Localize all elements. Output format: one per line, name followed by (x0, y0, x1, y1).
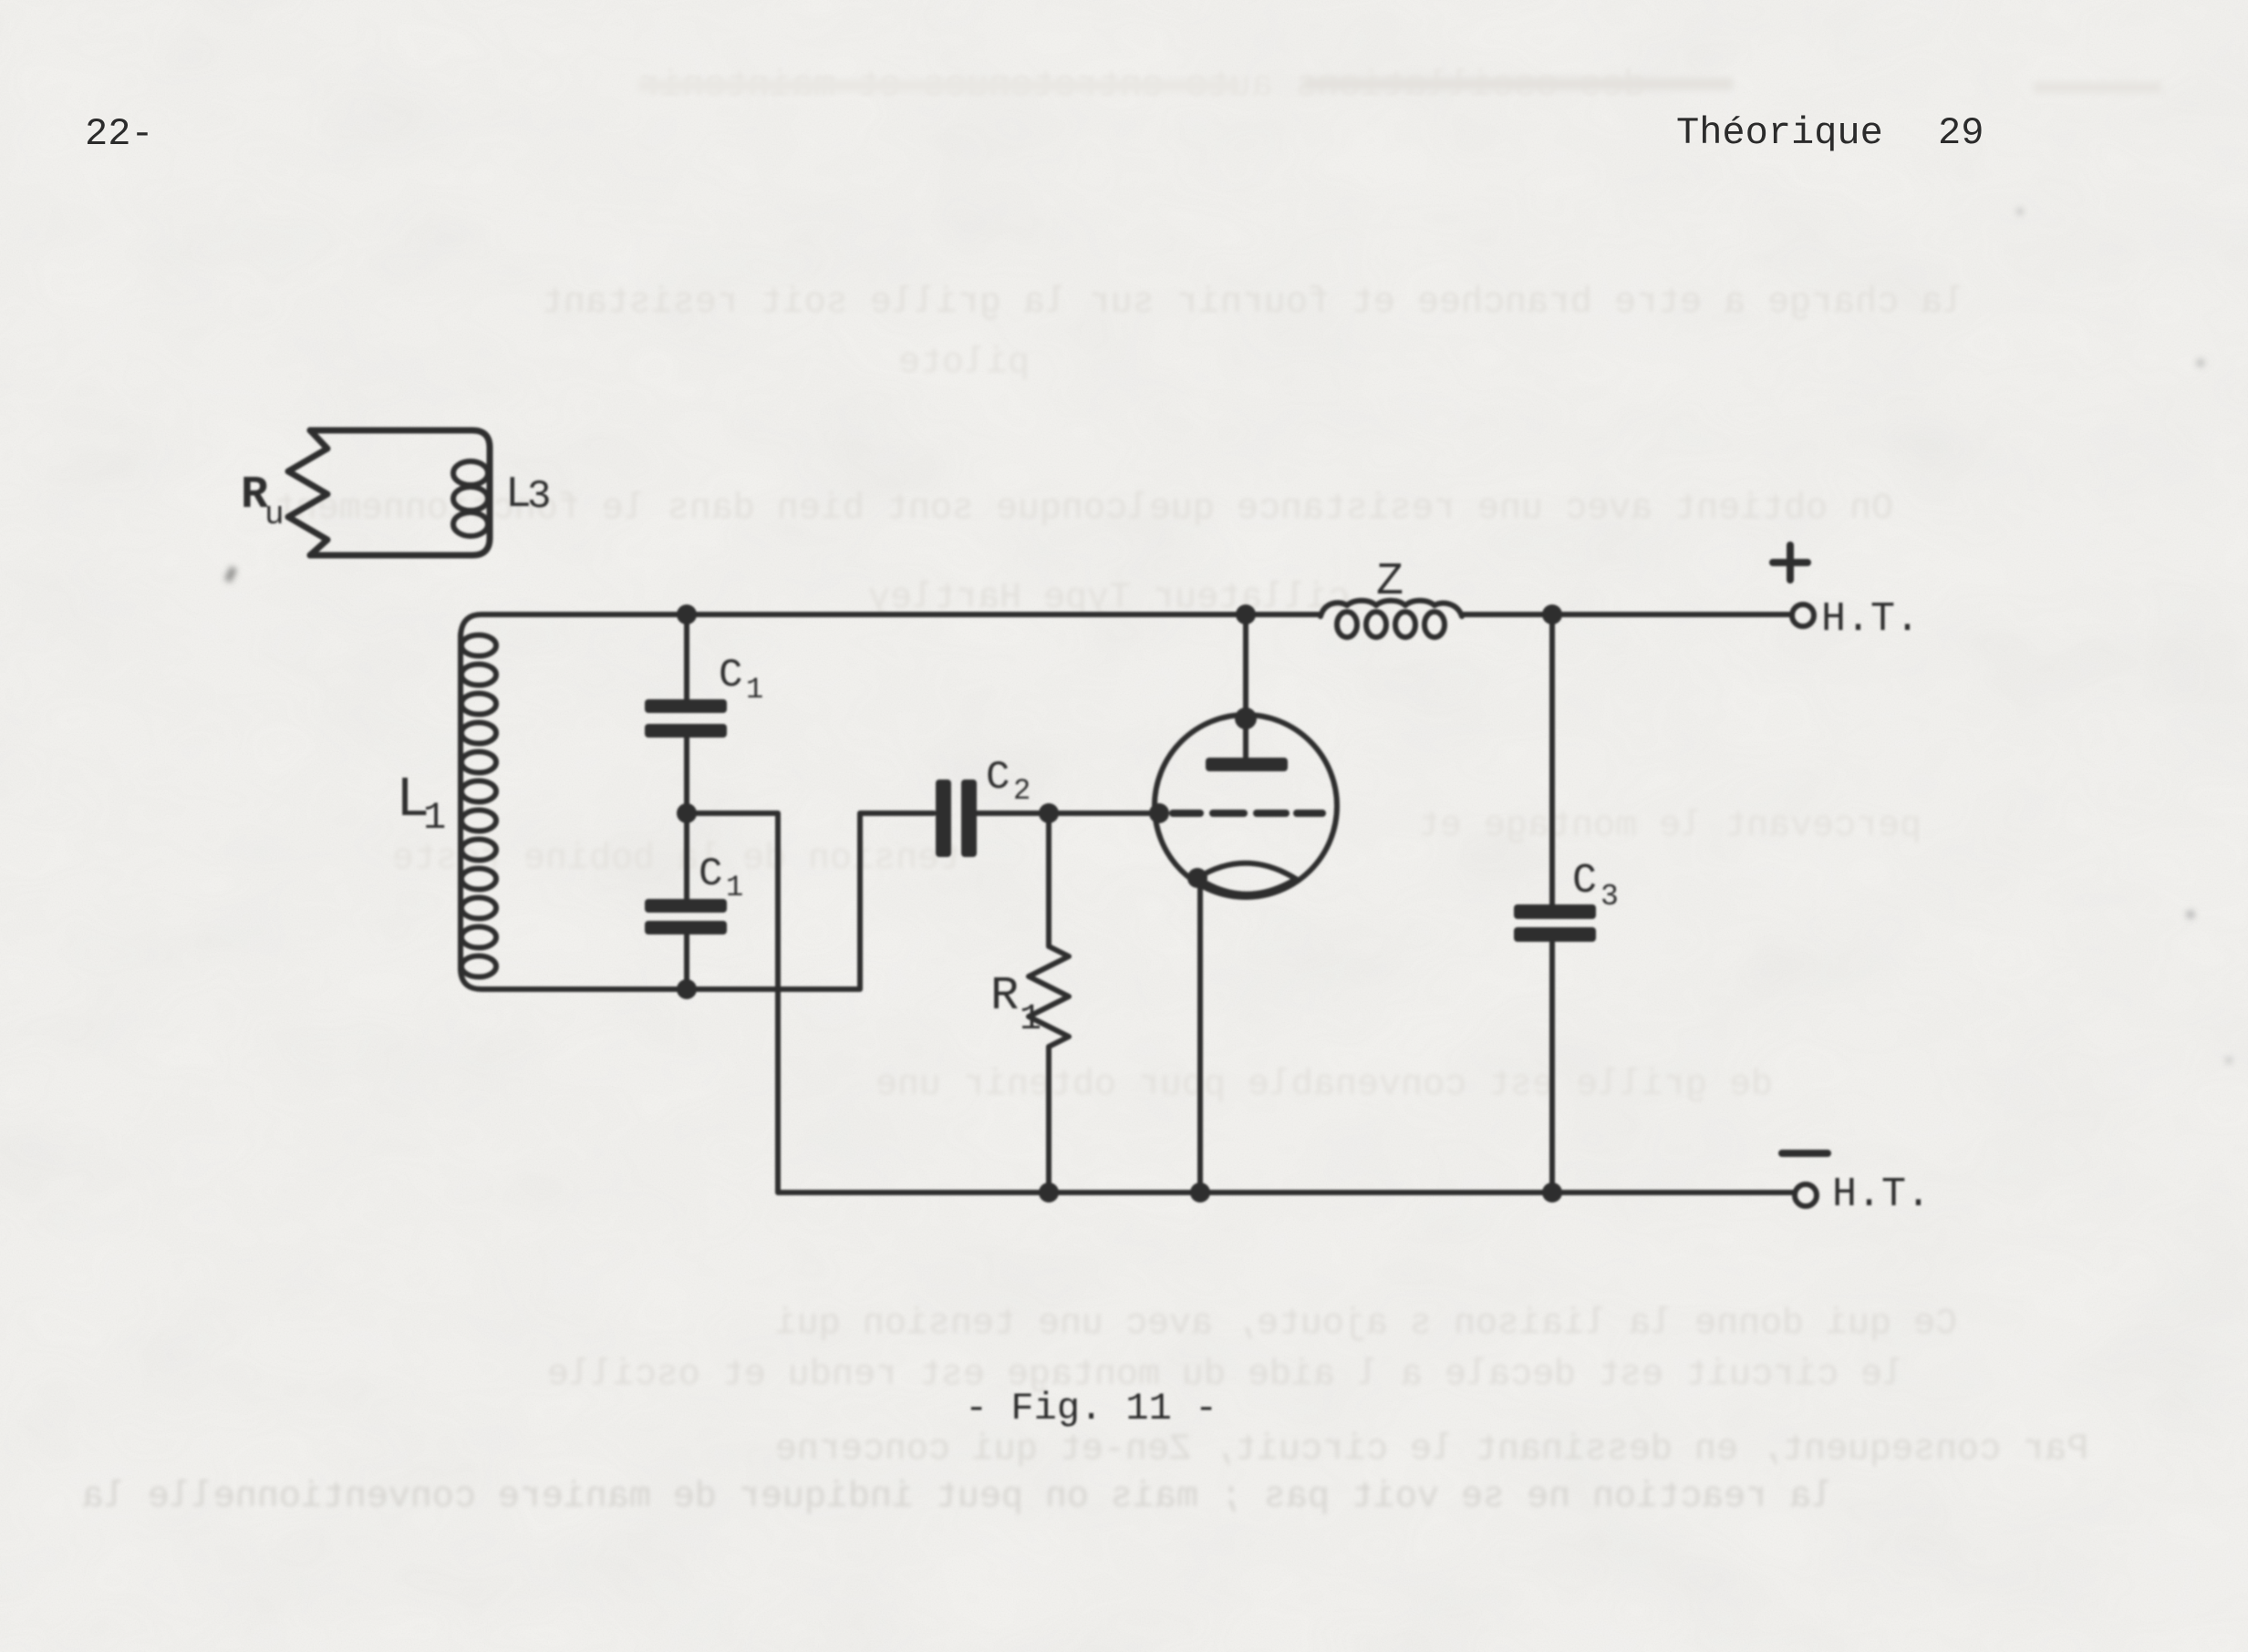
svg-text:1: 1 (423, 796, 446, 840)
svg-text:Z: Z (1376, 556, 1404, 608)
svg-text:R: R (990, 969, 1019, 1023)
svg-text:C: C (719, 653, 742, 698)
svg-text:1: 1 (1020, 999, 1041, 1040)
svg-text:la reaction ne se voit pas ; m: la reaction ne se voit pas ; mais on peu… (82, 1477, 1833, 1518)
svg-text:C: C (1572, 858, 1597, 904)
svg-text:C: C (699, 852, 722, 897)
svg-text:1: 1 (746, 673, 763, 707)
svg-text:de grille est convenable pour: de grille est convenable pour obtenir un… (875, 1065, 1773, 1106)
svg-text:29: 29 (1938, 111, 1984, 155)
svg-text:H.T.: H.T. (1821, 596, 1920, 643)
svg-text:3: 3 (527, 474, 551, 520)
svg-text:22-: 22- (85, 112, 154, 156)
svg-text:u: u (264, 496, 285, 533)
svg-text:H.T.: H.T. (1832, 1172, 1931, 1218)
svg-text:pilote: pilote (898, 343, 1030, 384)
svg-text:3: 3 (1601, 880, 1619, 914)
svg-text:le circuit est decale a l aide: le circuit est decale a l aide du montag… (547, 1355, 1904, 1396)
svg-text:la charge a etre branchee et f: la charge a etre branchee et fournir sur… (542, 283, 1964, 324)
svg-text:Par consequent, en dessinant l: Par consequent, en dessinant le circuit,… (775, 1430, 2088, 1471)
svg-text:2: 2 (1013, 774, 1031, 808)
svg-text:percevant le montage et: percevant le montage et (1418, 806, 1922, 847)
svg-text:1: 1 (726, 871, 743, 904)
svg-text:Ce qui donne la liaison s ajou: Ce qui donne la liaison s ajoute, avec u… (775, 1304, 1957, 1345)
svg-text:- Fig. 11 -: - Fig. 11 - (965, 1387, 1217, 1430)
svg-text:C: C (986, 755, 1010, 800)
svg-text:Théorique: Théorique (1676, 111, 1883, 155)
